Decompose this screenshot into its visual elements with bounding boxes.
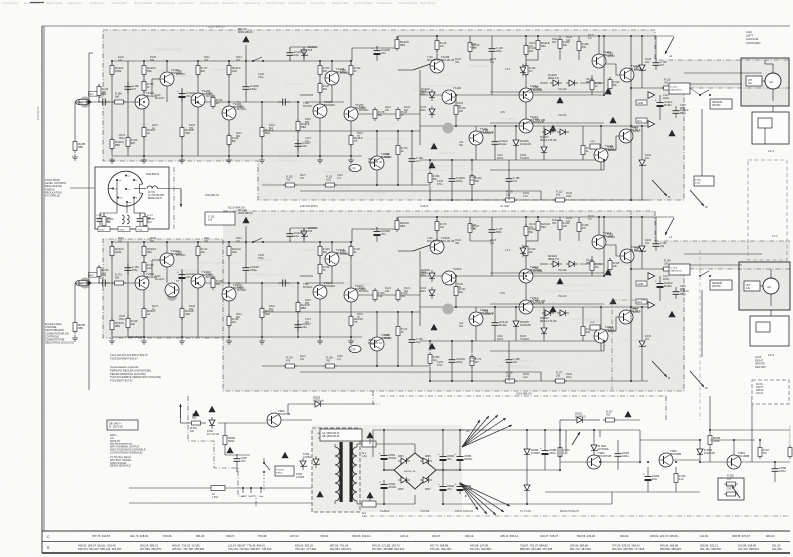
resistor: [429, 171, 431, 185]
diode: [420, 460, 432, 462]
resistor R910: [724, 493, 738, 495]
ground: [350, 157, 352, 160]
resistor: [319, 262, 321, 276]
resistor R205: [74, 320, 76, 334]
switch S802: [263, 458, 265, 462]
resistor: [609, 77, 611, 91]
capacitor C80: [236, 454, 238, 459]
ground: [350, 338, 352, 341]
resistor R1139: [503, 199, 517, 201]
capacitor C102 input coupling: [98, 101, 103, 103]
input connector plug channel 1: [79, 99, 87, 104]
ground: [181, 157, 183, 160]
transistor T2108: [370, 337, 384, 351]
resistor R802: [224, 433, 226, 447]
rail to T902: [601, 461, 640, 463]
zener D108: [641, 243, 643, 255]
resistor: [374, 288, 376, 302]
fuse F102 lower: [590, 144, 600, 149]
resistor: [578, 220, 580, 234]
electrolytic capacitor C2112: [659, 279, 661, 284]
solder blob: [167, 291, 177, 301]
transistor T1104: [222, 106, 236, 120]
diode: [398, 460, 410, 462]
dash-dot border channel 2: [223, 211, 790, 241]
LS1 label text: [746, 30, 760, 45]
shaded region: right connector box LS1: [741, 58, 789, 106]
dashed connection lines right column: [699, 250, 701, 420]
arrow B channel 1: [652, 180, 667, 196]
diode D803: [312, 403, 324, 405]
switch: [252, 60, 254, 62]
capacitor C701: [133, 198, 135, 214]
column C103: [181, 269, 183, 337]
capacitor C906: [774, 464, 776, 469]
solder blob: [80, 97, 91, 108]
resistor: [112, 282, 126, 284]
sensor box channel 1: [710, 99, 732, 109]
ground: [111, 157, 113, 160]
trimmer D901 adj: [572, 432, 580, 445]
resistor: [578, 39, 580, 53]
mains rating boxed note: [107, 420, 138, 430]
dash-dot boundary right of DIN box: [173, 167, 175, 229]
right column dash-dot link channel1 to mute: [630, 210, 632, 250]
resistor: [553, 199, 567, 201]
shaded region: channel 2 input sub-block: [103, 239, 223, 338]
output inductor Dr202: [669, 264, 690, 275]
ground: [261, 157, 263, 160]
capacitor: [139, 214, 141, 219]
long rails power: [460, 429, 545, 431]
resistor: [471, 354, 473, 368]
diode: [542, 131, 554, 133]
DIN connector enclosure box: [95, 167, 169, 229]
dash-dot rule above table right side: [370, 515, 790, 517]
capacitor C1110: [494, 137, 496, 142]
resistor R2104: [143, 244, 145, 258]
left bus wire vertical: [88, 53, 90, 390]
fuse F102 lower: [590, 325, 600, 330]
resistor R2101: [111, 244, 113, 258]
resistor R1110: [228, 63, 230, 77]
wire to speaker connector lower: [684, 83, 742, 85]
feedback column: [297, 283, 299, 337]
resistor: [559, 445, 561, 459]
electrolytic capacitor C1103: [181, 89, 183, 94]
electrolytic capacitor C806: [459, 482, 461, 487]
double rail detail near output: [490, 272, 604, 274]
secondary fuse top: [356, 444, 358, 447]
ground: [319, 157, 321, 160]
electrolytic capacitor C1112: [659, 98, 661, 103]
resistor: [323, 365, 337, 367]
wire: vertical column 1: [111, 242, 113, 337]
wire lower mid rail: [420, 159, 604, 161]
column R113: [261, 102, 263, 156]
resistor R2108: [181, 306, 183, 320]
lower-left bias area wires: [262, 130, 420, 132]
regulator area rails: [559, 420, 561, 470]
ground: [261, 338, 263, 341]
shaded region: channel 1 amplifier block: [103, 30, 790, 200]
resistor R2120: [396, 218, 398, 232]
chassis marker triangle: [430, 324, 437, 330]
wire T105 to T107 row: [305, 282, 344, 284]
sheet frame top border: [42, 25, 790, 27]
transistor T1105: [325, 71, 339, 85]
diode: [431, 106, 433, 118]
parts table top rule: [42, 530, 790, 532]
ground: [228, 338, 230, 341]
ground: [111, 338, 113, 341]
resistor: [582, 143, 584, 157]
transistor T2103: [191, 274, 205, 288]
chassis marker triangle: [430, 143, 437, 149]
resistor R700: [103, 213, 105, 216]
mains input wire L: [129, 487, 216, 489]
wire mid rail: [236, 101, 300, 103]
diode: [431, 270, 433, 282]
wire: vertical column T101: [143, 61, 145, 95]
chassis marker triangle: [556, 278, 563, 284]
channel 1 input stub from bus: [75, 101, 89, 103]
wire: signal rail entry: [112, 282, 136, 284]
primary feed wire: [181, 422, 190, 424]
chassis marker triangle: [549, 125, 556, 131]
resistor R105: [74, 139, 76, 153]
transistor T1106: [313, 104, 327, 118]
resistor R908: [759, 445, 761, 459]
transistor T2114: [592, 235, 606, 249]
lower psu wires: [611, 492, 613, 504]
arrow B channel 2: [652, 361, 667, 377]
supply rail vertical right: [603, 217, 605, 276]
PSU dash-dot staircase boundary left: [188, 396, 256, 508]
resistor R1104: [143, 63, 145, 77]
output node to speaker line: [631, 87, 684, 89]
ground: [74, 154, 76, 157]
diode: [431, 89, 433, 101]
transistor T2109: [430, 240, 444, 254]
transistor T801: [267, 413, 281, 427]
chassis marker triangle: [604, 88, 611, 94]
resistor: [228, 314, 230, 328]
resistor: [397, 324, 399, 338]
wire relay to lower area channel 2: [701, 290, 703, 357]
resistor: [197, 244, 199, 258]
electrolytic capacitor C1108: [376, 46, 378, 51]
capacitor: [655, 239, 657, 244]
LS2 inner terminal box: [744, 281, 760, 291]
resistor R1115: [297, 119, 299, 133]
capacitor C2109: [451, 355, 453, 360]
arrow M channel 1: [690, 190, 704, 206]
zener D108: [641, 62, 643, 74]
wire: right half mid rail: [420, 94, 604, 96]
resistor: [228, 133, 230, 147]
resistor R2107: [143, 306, 145, 320]
resistor: [212, 276, 214, 290]
resistor: [525, 63, 527, 77]
parts table bottom rule: [42, 552, 790, 554]
resistor: [283, 365, 297, 367]
resistor R113: [591, 78, 593, 92]
capacitor: [491, 44, 493, 49]
electrolytic capacitor C804: [442, 482, 444, 487]
dash-dot border channel 1: [103, 30, 790, 60]
resistor R2118: [537, 219, 539, 233]
electrolytic capacitor C805: [459, 452, 461, 457]
capacitor column x656: [655, 36, 657, 60]
scan noise overlay: [0, 0, 1, 1]
transistor T1110: [442, 90, 456, 104]
resistor: [98, 265, 100, 279]
shaded region: power supply transformer area: [312, 425, 462, 512]
diode: [542, 312, 554, 314]
bridge output wires: [384, 469, 394, 471]
antenna arrow top of psu: [180, 404, 182, 418]
PSU dash-dot border: [373, 391, 380, 404]
resistor R2139: [503, 380, 517, 382]
diode: [522, 245, 524, 257]
mid coupling to right half: [358, 113, 420, 115]
diode D 903: [699, 446, 701, 458]
transistor T2104: [222, 287, 236, 301]
shaded region: channel 2 amplifier block: [223, 211, 790, 391]
resistor: [374, 107, 376, 121]
rectifier top rail: [373, 429, 490, 431]
wire to speaker connector lower: [684, 264, 742, 266]
switch on top rail: [245, 226, 247, 236]
resistor R1120: [396, 37, 398, 51]
resistor: [436, 38, 438, 52]
transistor T7: [165, 283, 179, 297]
chassis marker triangle: [668, 130, 675, 136]
timer box: [275, 466, 294, 476]
transformer TR801 core bars: [340, 442, 343, 502]
resistor R2103: [111, 318, 113, 332]
signal arrow: [648, 121, 655, 128]
electrolytic capacitor C803: [442, 452, 444, 457]
chassis marker triangle: [668, 311, 675, 317]
resistor: [429, 352, 431, 366]
transistor T2116: [620, 249, 634, 263]
junction dots on rails: [111, 241, 113, 243]
input shunt resistor R205: [74, 283, 76, 320]
LS2 wiring: [760, 285, 763, 287]
transistor T1114: [592, 54, 606, 68]
transistor T1109: [430, 59, 444, 73]
transistor T2117: [619, 310, 633, 324]
switch on top rail: [245, 45, 247, 55]
solder blob: [443, 304, 454, 315]
DIN pin filter components row: [116, 180, 118, 213]
capacitor C1109: [451, 174, 453, 179]
transistor T1102: [160, 72, 174, 86]
resistor: [397, 107, 399, 121]
capacitor C2106: [278, 282, 283, 284]
fuse S1: [211, 486, 225, 491]
right long vertical wire: [751, 396, 753, 462]
resistor: [661, 268, 675, 270]
resistor: [469, 221, 471, 235]
zener D802 in primary box: [315, 456, 317, 468]
feedback column: [297, 102, 299, 156]
resistor: [144, 214, 146, 228]
sheet frame left border: [41, 26, 43, 553]
wire: lower rail: [112, 336, 362, 338]
resistor: [553, 380, 567, 382]
LED fan indicator upper: [462, 420, 480, 447]
wire: vertical column x128: [127, 61, 129, 156]
chassis marker triangle: [604, 269, 611, 275]
diode D1105: [515, 137, 517, 149]
labels sprinkled for texture: [118, 34, 686, 198]
capacitor C901: [617, 449, 619, 454]
transistor T2110: [442, 271, 456, 285]
transistor T1101: [135, 95, 149, 109]
chassis marker triangle: [242, 36, 249, 42]
input jack label channel 1: [89, 92, 98, 97]
bottom rail psu: [545, 491, 700, 493]
chassis marker triangle: [208, 406, 215, 412]
LS1 inner terminal box: [746, 76, 762, 86]
electrolytic capacitor C904: [647, 472, 649, 477]
resistor R1108: [181, 125, 183, 139]
wire mid rail: [236, 282, 300, 284]
resistor R2115: [297, 300, 299, 314]
arrow A pointer at rail end: [665, 218, 674, 235]
speaker plug connector below LS1: [752, 112, 789, 144]
transformer primary winding: [335, 447, 340, 456]
diode D901: [574, 419, 586, 421]
chassis marker triangle: [366, 492, 373, 498]
transistor T903: [727, 455, 741, 469]
diode: [522, 64, 524, 76]
diode: [543, 144, 545, 156]
resistor: [98, 84, 100, 98]
left margin text: level control: [45, 178, 67, 198]
speaker relay contact channel 2: [699, 275, 701, 277]
diode: [526, 482, 528, 494]
transformer secondary winding: [353, 447, 358, 456]
lower-left bias area wires: [262, 311, 420, 313]
signal arrow: [648, 302, 655, 309]
chassis marker triangle: [609, 117, 616, 123]
resistor R907: [789, 445, 791, 459]
speaker plug connector below LS2: [750, 316, 789, 346]
wire T105 to T107 row: [305, 101, 344, 103]
capacitor column x656: [655, 217, 657, 241]
diode D809: [526, 446, 528, 458]
transistor T1107: [344, 107, 358, 121]
wire: signal rail entry: [112, 101, 136, 103]
chassis marker triangle: [316, 491, 323, 497]
switch: [252, 241, 254, 243]
transistor T2111: [469, 312, 483, 326]
capacitor C1113: [675, 106, 677, 111]
capacitor C202 input coupling: [98, 282, 103, 284]
ground: [74, 335, 76, 338]
inter-channel gap annotations: [300, 205, 510, 208]
resistor: [559, 37, 561, 51]
electrolytic capacitor C802: [383, 480, 385, 485]
transistor T1112: [519, 88, 533, 102]
capacitor C1104: [289, 48, 291, 53]
chassis marker triangle: [428, 343, 435, 349]
wire to speaker connector upper: [684, 253, 762, 255]
speaker LS2 symbol circle: [763, 278, 779, 294]
resistor: [525, 244, 527, 258]
ground: [228, 157, 230, 160]
capacitor C2105: [245, 263, 247, 268]
resistor: [436, 219, 438, 233]
chassis marker triangle: [549, 306, 556, 312]
diode: [211, 417, 213, 429]
parts table middle rule: [42, 541, 790, 543]
ferrite bead Dr701: [147, 186, 157, 189]
LED fan indicator lower: [460, 483, 478, 510]
transistor T2113: [519, 300, 533, 314]
wire relay to mute box: [701, 109, 703, 176]
output node to speaker line: [631, 268, 684, 270]
junction dots on rails: [111, 60, 113, 62]
electrolytic capacitor C2103: [181, 270, 183, 275]
resistor R1101: [111, 63, 113, 77]
preset trimmer arrow: [413, 62, 436, 70]
resistor R906: [709, 433, 711, 447]
resistor: [319, 63, 321, 77]
resistor: [127, 135, 129, 149]
tall dashed interconnect rectangle right side: [748, 160, 787, 260]
speaker connector LS1 outer box: [741, 58, 789, 106]
wire lower bias rail y191: [300, 371, 541, 373]
capacitor C1107: [297, 139, 299, 144]
resistor R2113: [261, 306, 263, 320]
diode: [550, 263, 562, 265]
resistor: [127, 316, 129, 330]
speaker relay contact channel 1: [699, 94, 701, 96]
diode: [431, 287, 433, 299]
transistor T2107: [344, 288, 358, 302]
monitor switch text block: [45, 323, 74, 345]
diode: [420, 479, 432, 481]
input shunt resistor R105: [74, 102, 76, 139]
wire: vertical column T101: [143, 242, 145, 276]
capacitor: [127, 263, 129, 268]
diode: [550, 82, 562, 84]
mute relay area box right mid: [752, 380, 789, 404]
resistor R2110: [228, 244, 230, 258]
choke L702 coil: [127, 215, 129, 224]
sheet frame corner box left: [43, 26, 45, 531]
transistor T2101: [135, 276, 149, 290]
wire from margin to DIN box: [70, 187, 108, 189]
LS1 wiring: [762, 80, 765, 82]
resistor: [112, 101, 126, 103]
wire: vertical column 1: [111, 61, 113, 156]
chassis marker triangle: [226, 447, 233, 453]
labels sprinkled for texture: [118, 215, 686, 379]
resistor: [675, 471, 677, 485]
transistor T1116: [620, 68, 634, 82]
arrow DIN output down: [180, 189, 182, 208]
resistor: [143, 79, 145, 93]
double rail detail near output: [490, 91, 604, 93]
wire: lower rail: [112, 155, 362, 157]
solder blob: [443, 123, 454, 134]
